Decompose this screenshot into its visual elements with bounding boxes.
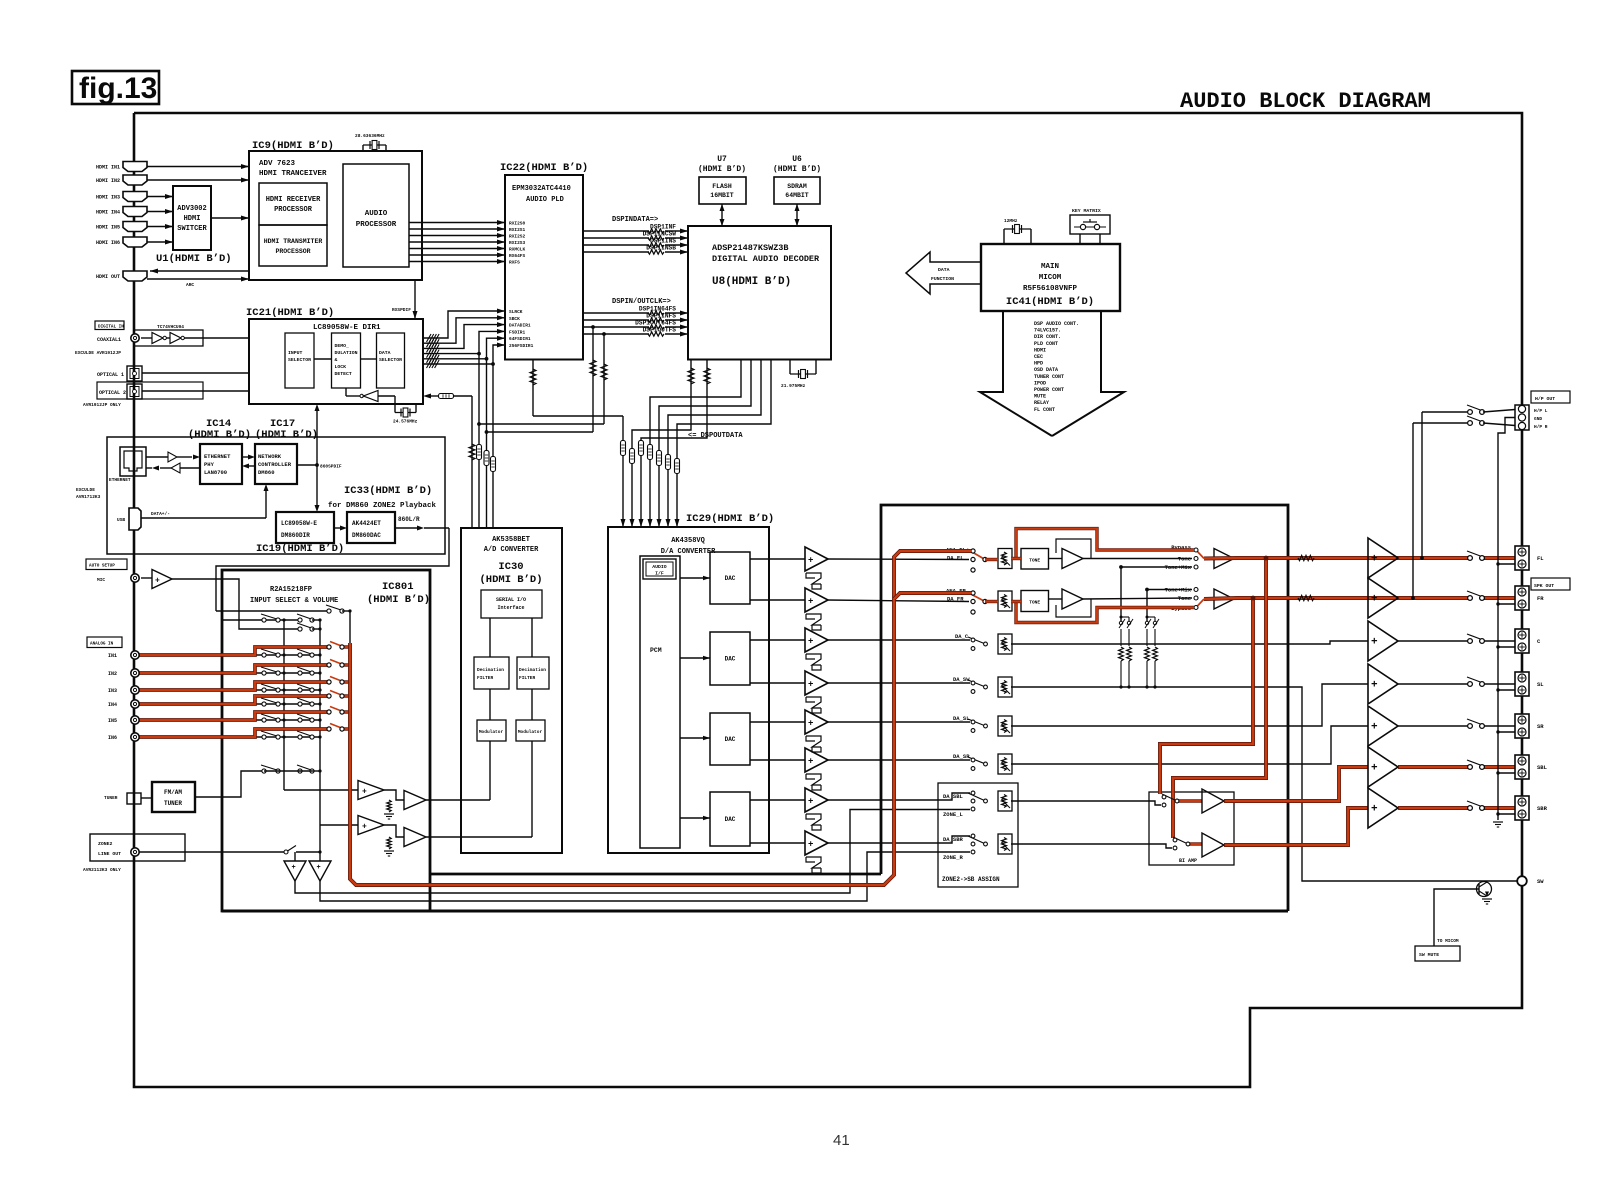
svg-text:I/F: I/F	[655, 571, 664, 577]
svg-text:DIR CONT.: DIR CONT.	[1034, 334, 1061, 340]
svg-text:FM/AM: FM/AM	[164, 789, 182, 796]
svg-text:OPTICAL 2: OPTICAL 2	[99, 390, 126, 396]
svg-text:PCM: PCM	[650, 647, 662, 654]
svg-text:IC29(HDMI B’D): IC29(HDMI B’D)	[686, 513, 774, 525]
svg-text:DM860: DM860	[258, 469, 275, 476]
svg-text:HDMI IN1: HDMI IN1	[96, 165, 120, 171]
svg-text:Decimation: Decimation	[519, 667, 546, 673]
svg-text:ZONE2: ZONE2	[98, 841, 113, 847]
svg-text:EXCULDE: EXCULDE	[76, 487, 95, 493]
svg-text:256FSDIR1: 256FSDIR1	[509, 343, 534, 349]
svg-text:<= DSPOUTDATA: <= DSPOUTDATA	[688, 432, 743, 440]
svg-text:TO MICOM: TO MICOM	[1437, 938, 1459, 944]
svg-text:IN2: IN2	[108, 671, 117, 677]
svg-text:fig.13: fig.13	[79, 72, 157, 105]
svg-text:GND: GND	[1534, 416, 1542, 422]
svg-text:FL CONT: FL CONT	[1034, 407, 1055, 413]
svg-text:IC33(HDMI B’D): IC33(HDMI B’D)	[344, 485, 432, 497]
svg-text:DAC: DAC	[725, 816, 736, 823]
svg-text:DA_FL: DA_FL	[947, 555, 964, 562]
svg-text:ETHERNET: ETHERNET	[204, 453, 231, 460]
svg-text:DSP1INF: DSP1INF	[650, 223, 676, 230]
svg-text:+: +	[808, 597, 813, 607]
svg-text:TUNER: TUNER	[164, 800, 182, 807]
svg-text:+: +	[317, 864, 321, 872]
svg-text:DSP AUDIO CONT.: DSP AUDIO CONT.	[1034, 321, 1079, 327]
svg-text:DIGITAL AUDIO DECODER: DIGITAL AUDIO DECODER	[712, 254, 820, 264]
svg-text:SWITCER: SWITCER	[177, 225, 207, 233]
svg-text:DM860DIR: DM860DIR	[281, 532, 310, 539]
svg-text:+: +	[1371, 594, 1378, 606]
svg-text:for DM860 ZONE2 Playback: for DM860 ZONE2 Playback	[328, 502, 437, 510]
svg-text:+: +	[808, 797, 813, 807]
svg-text:EPM3032ATC4410: EPM3032ATC4410	[512, 185, 571, 193]
svg-text:RELAY: RELAY	[1034, 400, 1049, 406]
svg-text:DATADIR1: DATADIR1	[509, 323, 531, 329]
svg-text:ANALOG IN: ANALOG IN	[90, 642, 114, 647]
svg-text:R2A15218FP: R2A15218FP	[270, 586, 312, 594]
svg-text:EXCULDE AVR1912JP: EXCULDE AVR1912JP	[75, 350, 121, 356]
svg-text:AUDIO BLOCK DIAGRAM: AUDIO BLOCK DIAGRAM	[1180, 89, 1431, 114]
svg-text:DEMO_: DEMO_	[335, 343, 350, 349]
svg-text:AK5358BET: AK5358BET	[492, 536, 530, 544]
svg-text:H/P OUT: H/P OUT	[1535, 396, 1555, 402]
svg-text:(HDMI B’D): (HDMI B’D)	[255, 429, 318, 441]
svg-text:AUTO SETUP: AUTO SETUP	[89, 564, 115, 569]
svg-text:D/A CONVERTER: D/A CONVERTER	[661, 548, 716, 556]
svg-text:AVR2112K3 ONLY: AVR2112K3 ONLY	[83, 867, 121, 873]
svg-text:FR: FR	[1537, 595, 1544, 602]
svg-text:U8(HDMI B’D): U8(HDMI B’D)	[712, 276, 791, 288]
svg-text:ADSP21487KSWZ3B: ADSP21487KSWZ3B	[712, 243, 789, 253]
svg-text:DATA: DATA	[938, 267, 950, 273]
svg-text:MUTE: MUTE	[1034, 394, 1046, 400]
svg-text:HDMI IN6: HDMI IN6	[96, 240, 120, 246]
svg-text:U6: U6	[792, 155, 802, 164]
svg-text:HDMI IN2: HDMI IN2	[96, 178, 120, 184]
svg-text:DULATION: DULATION	[335, 350, 358, 356]
svg-text:860SPDIF: 860SPDIF	[320, 464, 342, 470]
svg-text:PROCESSOR: PROCESSOR	[356, 221, 397, 229]
svg-text:FLASH: FLASH	[712, 183, 732, 190]
svg-text:(HDMI B’D): (HDMI B’D)	[188, 429, 251, 441]
svg-text:Decimation: Decimation	[477, 667, 504, 673]
svg-text:OPTICAL 1: OPTICAL 1	[97, 372, 124, 378]
svg-text:U1(HDMI B’D): U1(HDMI B’D)	[156, 253, 232, 265]
svg-text:RXSPDIF: RXSPDIF	[392, 307, 411, 313]
svg-text:HPD: HPD	[1034, 361, 1043, 367]
svg-text:(HDMI B’D): (HDMI B’D)	[479, 574, 542, 586]
svg-text:Modulator: Modulator	[518, 729, 543, 735]
svg-text:860L/R: 860L/R	[398, 516, 420, 523]
svg-text:KEY MATRIX: KEY MATRIX	[1072, 208, 1101, 214]
svg-text:DSP1INSB: DSP1INSB	[646, 244, 676, 251]
svg-text:64FSDIR1: 64FSDIR1	[509, 336, 531, 342]
svg-text:MAIN: MAIN	[1041, 263, 1059, 271]
svg-text:DA_SL: DA_SL	[953, 715, 970, 722]
svg-text:MICOM: MICOM	[1039, 274, 1062, 282]
svg-text:LAN8700: LAN8700	[204, 469, 227, 476]
svg-text:IC41(HDMI B’D): IC41(HDMI B’D)	[1006, 296, 1094, 308]
svg-text:41: 41	[833, 1132, 850, 1149]
svg-text:IN6: IN6	[108, 735, 117, 741]
svg-text:IC30: IC30	[498, 561, 523, 573]
svg-text:+: +	[808, 637, 813, 647]
svg-text:28.63636MHz: 28.63636MHz	[355, 133, 385, 139]
svg-text:U7: U7	[717, 155, 727, 164]
svg-text:CEC: CEC	[1034, 354, 1043, 360]
svg-text:HDMI IN5: HDMI IN5	[96, 225, 120, 231]
svg-text:TC74VHCU04: TC74VHCU04	[157, 324, 184, 330]
svg-text:PROCESSOR: PROCESSOR	[275, 248, 310, 255]
svg-text:IN4: IN4	[108, 702, 117, 708]
svg-text:CONTROLLER: CONTROLLER	[258, 461, 292, 468]
svg-text:NETWORK: NETWORK	[258, 453, 282, 460]
svg-text:+: +	[1371, 554, 1378, 566]
svg-text:IN5: IN5	[108, 718, 117, 724]
svg-text:HDMI IN4: HDMI IN4	[96, 210, 120, 216]
svg-text:SBR: SBR	[1537, 805, 1548, 812]
svg-text:(HDMI B’D): (HDMI B’D)	[698, 165, 746, 174]
svg-text:A/D CONVERTER: A/D CONVERTER	[484, 546, 539, 554]
svg-text:LOCK: LOCK	[335, 364, 347, 370]
svg-text:FSDIR1: FSDIR1	[509, 329, 526, 335]
svg-text:Tone: Tone	[1178, 595, 1192, 602]
svg-text:DATA+/-: DATA+/-	[151, 511, 170, 517]
svg-text:ZONE2->SB ASSIGN: ZONE2->SB ASSIGN	[942, 876, 1000, 883]
svg-text:RXI2S0: RXI2S0	[509, 221, 526, 227]
svg-text:SBCK: SBCK	[509, 316, 520, 322]
svg-text:R5F56108VNFP: R5F56108VNFP	[1023, 285, 1078, 293]
svg-text:SLRCK: SLRCK	[509, 309, 523, 315]
svg-text:+: +	[808, 719, 813, 729]
svg-text:TONE: TONE	[1029, 558, 1040, 564]
svg-text:RXI2S2: RXI2S2	[509, 234, 526, 240]
svg-text:SDRAM: SDRAM	[787, 183, 807, 190]
svg-text:FUNCTION: FUNCTION	[931, 276, 954, 282]
svg-text:Interface: Interface	[497, 605, 524, 611]
svg-text:DA_SBR: DA_SBR	[943, 836, 964, 843]
svg-text:AVR1712K3: AVR1712K3	[76, 494, 101, 500]
svg-text:BI AMP: BI AMP	[1179, 858, 1197, 864]
svg-text:DA_SW: DA_SW	[953, 676, 970, 683]
svg-text:+: +	[808, 840, 813, 850]
svg-text:SELECTOR: SELECTOR	[379, 357, 402, 363]
svg-text:AUDIO: AUDIO	[652, 564, 667, 570]
svg-text:12MHz: 12MHz	[1004, 218, 1018, 224]
svg-text:PLD CONT: PLD CONT	[1034, 341, 1058, 347]
svg-text:+: +	[808, 680, 813, 690]
svg-text:ETHERNET: ETHERNET	[109, 477, 131, 483]
svg-text:ZONE_R: ZONE_R	[943, 854, 964, 861]
svg-text:21.975MHz: 21.975MHz	[781, 383, 806, 389]
svg-text:RXFS: RXFS	[509, 260, 520, 266]
svg-text:IC19(HDMI B’D): IC19(HDMI B’D)	[256, 543, 344, 555]
svg-text:AK4358VQ: AK4358VQ	[671, 537, 705, 545]
svg-text:DA_SBL: DA_SBL	[943, 793, 964, 800]
svg-text:RXMCLK: RXMCLK	[509, 247, 526, 253]
svg-text:74LVC157.: 74LVC157.	[1034, 328, 1061, 334]
svg-text:IC21(HDMI B’D): IC21(HDMI B’D)	[246, 307, 334, 319]
svg-text:Modulator: Modulator	[479, 729, 504, 735]
svg-text:AVR1912JP ONLY: AVR1912JP ONLY	[83, 402, 121, 408]
svg-text:+: +	[362, 823, 367, 832]
svg-text:ARC: ARC	[186, 282, 194, 288]
svg-text:SL: SL	[1537, 681, 1544, 688]
svg-text:PROCESSOR: PROCESSOR	[274, 206, 313, 214]
svg-text:DAC: DAC	[725, 575, 736, 582]
svg-text:DSP1OUTFS: DSP1OUTFS	[643, 326, 677, 333]
svg-text:+: +	[1371, 722, 1378, 734]
svg-text:IC801: IC801	[382, 581, 414, 593]
svg-text:DA_C: DA_C	[955, 633, 969, 640]
svg-text:24.576MHz: 24.576MHz	[393, 419, 418, 425]
svg-text:TUNER CONT: TUNER CONT	[1034, 374, 1064, 380]
svg-text:HDMI OUT: HDMI OUT	[96, 274, 120, 280]
svg-text:DATA: DATA	[379, 350, 391, 356]
svg-text:AUDIO: AUDIO	[365, 210, 388, 218]
svg-text:DM860DAC: DM860DAC	[352, 532, 381, 539]
svg-text:DIGITAL IN: DIGITAL IN	[98, 325, 124, 330]
svg-text:TONE: TONE	[1029, 600, 1040, 606]
svg-text:HDMI RECEIVER: HDMI RECEIVER	[266, 196, 321, 204]
svg-text:FL: FL	[1537, 555, 1544, 562]
svg-text:HDMI TRANSMITER: HDMI TRANSMITER	[264, 238, 323, 245]
svg-text:+: +	[292, 864, 296, 872]
svg-text:&: &	[335, 357, 338, 363]
svg-text:(HDMI B’D): (HDMI B’D)	[773, 165, 821, 174]
svg-text:LC89058W-E: LC89058W-E	[281, 520, 317, 527]
svg-text:FILTER: FILTER	[477, 675, 494, 681]
svg-text:ADV 7623: ADV 7623	[259, 160, 296, 168]
svg-text:HDMI IN3: HDMI IN3	[96, 195, 120, 201]
svg-text:IC9(HDMI B’D): IC9(HDMI B’D)	[252, 140, 334, 152]
svg-text:TUNER: TUNER	[104, 795, 118, 801]
svg-text:PHY: PHY	[204, 461, 215, 468]
svg-text:H/P L: H/P L	[1534, 408, 1548, 414]
svg-text:SW: SW	[1537, 878, 1544, 885]
svg-text:DSP1OUT64FS: DSP1OUT64FS	[635, 319, 676, 326]
svg-text:64MBIT: 64MBIT	[785, 192, 809, 199]
svg-text:OSD DATA: OSD DATA	[1034, 367, 1058, 373]
svg-text:IPOD: IPOD	[1034, 380, 1046, 386]
svg-text:+: +	[1371, 637, 1378, 649]
svg-text:DSP1INS: DSP1INS	[650, 237, 676, 244]
svg-text:(HDMI B’D): (HDMI B’D)	[367, 594, 430, 606]
svg-text:+: +	[808, 757, 813, 767]
svg-text:INPUT: INPUT	[288, 350, 303, 356]
svg-text:SELECTOR: SELECTOR	[288, 357, 311, 363]
svg-text:IN1: IN1	[108, 653, 117, 659]
svg-text:FILTER: FILTER	[519, 675, 536, 681]
svg-text:DETECT: DETECT	[335, 371, 352, 377]
svg-text:RXI2S3: RXI2S3	[509, 240, 526, 246]
svg-text:16MBIT: 16MBIT	[710, 192, 734, 199]
svg-text:DAC: DAC	[725, 656, 736, 663]
svg-text:+: +	[1371, 680, 1378, 692]
svg-text:IC22(HDMI B’D): IC22(HDMI B’D)	[500, 162, 588, 174]
svg-text:HDMI: HDMI	[184, 215, 201, 223]
svg-text:POWER CONT: POWER CONT	[1034, 387, 1064, 393]
svg-text:HDMI TRANCEIVER: HDMI TRANCEIVER	[259, 170, 327, 178]
svg-text:DA_SR: DA_SR	[953, 753, 970, 760]
svg-text:+: +	[1371, 804, 1378, 816]
svg-text:AUDIO PLD: AUDIO PLD	[526, 196, 564, 204]
svg-text:DSP1IN64FS: DSP1IN64FS	[639, 305, 676, 312]
svg-text:HDMI: HDMI	[1034, 347, 1046, 353]
svg-text:DAC: DAC	[725, 736, 736, 743]
svg-text:MIC: MIC	[97, 577, 105, 583]
svg-text:SW MUTE: SW MUTE	[1419, 952, 1439, 958]
svg-text:AK4424ET: AK4424ET	[352, 520, 381, 527]
svg-text:SPK OUT: SPK OUT	[1534, 583, 1554, 589]
svg-text:RX64FS: RX64FS	[509, 253, 526, 259]
svg-text:INPUT SELECT & VOLUME: INPUT SELECT & VOLUME	[250, 597, 338, 605]
svg-text:USB: USB	[117, 517, 125, 523]
svg-text:LINE OUT: LINE OUT	[98, 851, 121, 857]
svg-text:H/P R: H/P R	[1534, 424, 1548, 430]
svg-text:DSP1INFS: DSP1INFS	[646, 312, 676, 319]
svg-text:ADV3002: ADV3002	[177, 205, 206, 213]
svg-text:COAXIAL1: COAXIAL1	[97, 337, 121, 343]
svg-text:SR: SR	[1537, 723, 1544, 730]
svg-text:+: +	[155, 577, 160, 586]
svg-text:IN3: IN3	[108, 688, 117, 694]
svg-text:ZONE_L: ZONE_L	[943, 811, 964, 818]
svg-text:Tone: Tone	[1178, 556, 1192, 563]
svg-text:SERIAL I/O: SERIAL I/O	[496, 597, 526, 603]
svg-text:+: +	[1371, 763, 1378, 775]
svg-text:+: +	[808, 556, 813, 566]
svg-text:LC89058W-E DIR1: LC89058W-E DIR1	[313, 324, 381, 332]
svg-text:RXI2S1: RXI2S1	[509, 227, 526, 233]
svg-text:DSP1INCSW: DSP1INCSW	[643, 230, 677, 237]
svg-text:+: +	[362, 788, 367, 797]
svg-text:SBL: SBL	[1537, 764, 1548, 771]
